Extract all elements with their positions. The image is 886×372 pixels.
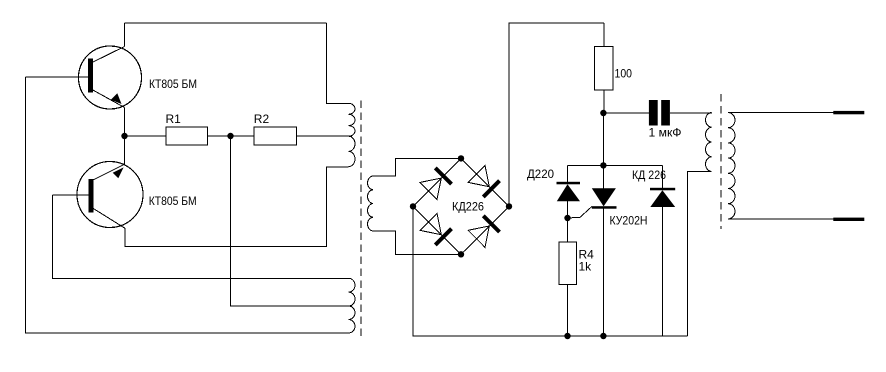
bridge edge top-left bbox=[413, 158, 461, 206]
wire T2 secondary bottom to terminal bbox=[728, 218, 834, 220]
wire Q1 base loop (left outer) bbox=[26, 77, 349, 333]
node bridge right bbox=[506, 203, 512, 209]
wire junction down to lower winding tap bbox=[231, 136, 353, 306]
transformer T2 core bbox=[720, 94, 722, 229]
diode bridge VD4 (bottom-right) bbox=[468, 216, 499, 248]
svg-text:1k: 1k bbox=[579, 260, 593, 274]
node resistor/cap junction bbox=[600, 110, 606, 116]
bridge edge bottom-left bbox=[413, 206, 461, 254]
svg-text:КТ805 БМ: КТ805 БМ bbox=[149, 77, 197, 91]
wire bridge minus down and bottom rail bbox=[413, 206, 687, 336]
svg-text:КД 226: КД 226 bbox=[632, 168, 666, 182]
wire bridge plus up and top rail bbox=[509, 23, 604, 206]
resistor R1 bbox=[166, 127, 208, 145]
transformer T1 secondary winding bbox=[368, 176, 373, 231]
diode D220 bbox=[557, 165, 581, 242]
node emitter junction bbox=[121, 133, 127, 139]
resistor 100 bbox=[603, 23, 605, 47]
wire right vertical to winding top bbox=[326, 23, 348, 103]
svg-text:КТ805 БМ: КТ805 БМ bbox=[149, 194, 197, 208]
transistor Q2 KT805 BM (bottom left) bbox=[53, 162, 144, 229]
wire gate bbox=[568, 206, 593, 218]
svg-text:КУ202Н: КУ202Н bbox=[610, 214, 648, 228]
node branch junction bbox=[600, 162, 606, 168]
wire node down bbox=[602, 113, 604, 165]
bridge edge bottom-right bbox=[461, 206, 509, 254]
diode bridge VD1 (top-left) bbox=[420, 168, 451, 199]
wire Q1 emitter down to node bbox=[124, 108, 126, 137]
wire top rail bbox=[125, 22, 327, 24]
wire R4 down bbox=[567, 285, 569, 337]
wire T2 secondary top to terminal bbox=[728, 112, 834, 114]
wire Q2 collector to winding bottom bbox=[125, 167, 348, 247]
wire branch horizontal bbox=[568, 164, 663, 166]
capacitor C1 1uF bbox=[603, 100, 712, 126]
wire T2 primary bottom to rail bbox=[687, 172, 711, 337]
svg-text:Д220: Д220 bbox=[527, 167, 554, 181]
svg-text:КД226: КД226 bbox=[452, 199, 484, 213]
transformer T2 primary winding bbox=[706, 113, 712, 172]
diode bridge VD2 (top-right) bbox=[468, 166, 499, 197]
wire T1 secondary bottom to bridge bbox=[373, 231, 461, 254]
resistor R2 bbox=[254, 127, 297, 145]
wire Q1 collector up bbox=[124, 23, 126, 47]
transistor Q1 KT805 BM (top left) bbox=[26, 46, 142, 109]
wire junction to R2 bbox=[231, 135, 255, 137]
svg-text:R1: R1 bbox=[166, 112, 182, 126]
bridge edge top-right bbox=[461, 158, 509, 206]
wire R1 to junction bbox=[208, 135, 231, 137]
transformer T1 lower primary winding bbox=[349, 278, 356, 333]
svg-text:1 мкФ: 1 мкФ bbox=[649, 125, 682, 139]
transformer T1 upper primary winding bbox=[349, 103, 356, 166]
svg-text:100: 100 bbox=[615, 66, 633, 80]
node R1/R2 junction bbox=[227, 133, 233, 139]
node bridge bottom bbox=[458, 251, 464, 257]
svg-text:R2: R2 bbox=[254, 112, 270, 126]
wire node to R1 bbox=[125, 135, 167, 137]
diode KD226 (right) bbox=[650, 165, 675, 336]
wire T1 secondary top to bridge bbox=[373, 158, 461, 176]
resistor R4 bbox=[559, 242, 577, 285]
diode bridge VD3 (bottom-left) bbox=[420, 213, 451, 245]
transformer T1 core bbox=[360, 101, 362, 340]
node gate junction bbox=[564, 215, 570, 221]
wire Q2 base loop bbox=[53, 195, 349, 278]
wire R2 to winding tap bbox=[297, 135, 353, 137]
node bridge top bbox=[458, 155, 464, 161]
transformer T2 secondary winding bbox=[728, 113, 735, 219]
thyristor KU202N bbox=[592, 165, 617, 336]
node thyristor bottom bbox=[600, 333, 606, 339]
terminal output bottom bbox=[833, 218, 864, 221]
wire Q2 emitter up to node bbox=[124, 136, 126, 164]
terminal output top bbox=[833, 111, 864, 114]
node bridge left bbox=[410, 203, 416, 209]
node R4 bottom bbox=[564, 333, 570, 339]
